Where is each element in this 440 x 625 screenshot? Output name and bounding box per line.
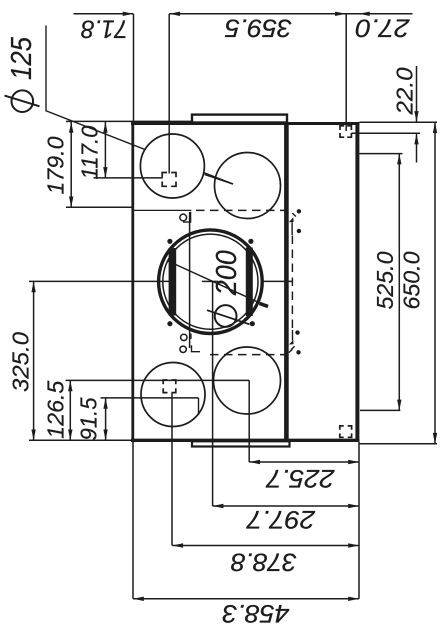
panel corner latch bottom-right dash	[291, 346, 295, 349]
duct left bar	[169, 248, 177, 316]
duct outer circle 200	[159, 230, 263, 334]
phi125 symbol circle	[11, 90, 33, 112]
body right edge	[355, 122, 359, 442]
duct vertical centerline extension to dim 297.7	[212, 281, 214, 506]
hinge bracket top	[183, 212, 191, 222]
extension line 126.5 / 225.7 horizontal	[66, 379, 250, 381]
dim 297.7 line	[213, 505, 359, 507]
svg-text:650.0: 650.0	[399, 251, 425, 309]
phi200 symbol slash	[207, 310, 250, 324]
dashed panel right edge	[291, 236, 293, 331]
body left edge	[131, 122, 134, 442]
svg-text:179.0: 179.0	[43, 136, 69, 194]
bolt dot right bottom1	[295, 330, 299, 334]
svg-text:125: 125	[6, 36, 38, 80]
flange bolt dot top-left	[167, 239, 172, 244]
body top edge	[131, 122, 360, 125]
body bottom edge	[131, 439, 360, 442]
dashed panel bottom edge	[210, 354, 293, 356]
panel corner latch top-right wedge	[289, 217, 294, 222]
extension line 525 top	[360, 153, 403, 155]
svg-text:325.0: 325.0	[8, 332, 34, 392]
dim 91.5 line	[105, 398, 107, 440]
extension line bottom dims right	[358, 442, 360, 599]
panel corner latch bottom-right wedge	[289, 340, 294, 345]
extension line 117 bottom horizontal	[94, 177, 163, 179]
hidden edge line through duct	[189, 212, 191, 348]
panel corner latch bottom-right arc	[289, 349, 293, 352]
svg-text:225.7: 225.7	[265, 464, 335, 492]
dim 458.3 line	[133, 598, 359, 600]
bolt dot right top2	[297, 229, 301, 233]
extension line 525 bottom connector	[360, 409, 400, 411]
phi125 symbol slash	[5, 96, 40, 107]
svg-text:378.8: 378.8	[231, 548, 297, 576]
panel top edge solid part	[133, 209, 191, 211]
dim 22.0 line	[416, 66, 418, 163]
duct inner circle 200	[163, 234, 258, 329]
bottom collar	[192, 441, 290, 446]
extension line 179 bottom horizontal	[66, 206, 133, 208]
extension line 91.5 short vertical	[198, 398, 200, 415]
duct right bar	[246, 248, 253, 317]
bolt dot right bottom2	[296, 350, 300, 354]
svg-text:71.8: 71.8	[81, 15, 128, 43]
svg-text:458.3: 458.3	[222, 599, 289, 625]
duct horizontal centerline	[29, 280, 293, 282]
extension line 458.3 vertical left	[132, 442, 134, 599]
svg-text:359.5: 359.5	[225, 14, 292, 42]
dim 225.7 line	[249, 461, 359, 463]
leader stub into C2	[205, 174, 234, 184]
panel corner latch bottom-right tail	[292, 330, 294, 341]
hinge ring top	[180, 214, 187, 221]
extension line 650 top	[360, 121, 438, 123]
duct circle 125 top-right C2	[215, 153, 281, 219]
marker M2	[340, 126, 351, 137]
svg-text:200: 200	[211, 250, 243, 296]
hinge ring bottom2	[180, 346, 186, 352]
marker M4	[340, 426, 352, 437]
svg-text:27.0: 27.0	[355, 14, 410, 42]
svg-text:22.0: 22.0	[392, 67, 418, 115]
hinge bracket bottom1	[190, 333, 192, 339]
flange bolt dot top-right	[248, 239, 253, 244]
dim 179.0 line	[70, 122, 72, 207]
svg-text:117.0: 117.0	[77, 125, 103, 179]
hinge bracket bottom2	[192, 345, 201, 352]
svg-text:525.0: 525.0	[372, 251, 398, 309]
duct circle 125 bottom-right C4	[214, 347, 281, 414]
extension line 179 top horizontal	[66, 120, 192, 122]
top collar	[192, 115, 287, 123]
extension line 378.8 vertical from marker M3	[171, 393, 173, 546]
hinge ring bottom1	[181, 334, 187, 340]
marker M3	[163, 380, 176, 393]
leader duct 200	[167, 261, 260, 304]
dim line top	[74, 13, 413, 15]
flange bolt dot bottom-right	[250, 321, 255, 326]
bolt dot right top1	[297, 209, 301, 213]
dim 650.0 line	[434, 122, 436, 443]
leader line phi125	[46, 26, 233, 185]
dashed panel top edge	[196, 209, 293, 211]
duct circle 125 top-left C1	[140, 134, 204, 198]
flange bolt dot bottom-left	[167, 321, 172, 326]
divider wall	[284, 122, 289, 442]
dim 525.0 line	[398, 154, 400, 411]
duct circle 125 bottom-left C3	[141, 363, 205, 427]
extension line 359.5 left vertical to marker M1	[168, 14, 170, 174]
dim 325.0 line	[33, 281, 35, 440]
leader duct stub	[260, 303, 269, 306]
extension line 27.0 vertical to marker M2	[345, 14, 347, 131]
panel corner latch top-right tail	[291, 222, 293, 235]
extension line 325 bottom horizontal	[29, 439, 131, 441]
extension line 225.7 vertical	[248, 380, 250, 462]
dim 378.8 line	[172, 545, 359, 547]
phi200 symbol circle	[215, 305, 237, 327]
marker M1	[162, 173, 176, 187]
svg-text:126.5: 126.5	[43, 380, 69, 438]
dim 126.5 line	[69, 380, 71, 440]
panel corner latch top-right dash	[292, 213, 296, 216]
extension line 22 bottom from marker M2	[352, 132, 421, 134]
extension line 91.5 horizontal	[101, 397, 199, 399]
svg-text:297.7: 297.7	[246, 505, 316, 533]
dim 117.0 line	[104, 122, 106, 178]
svg-text:91.5: 91.5	[76, 397, 102, 440]
extension line 650 bottom	[360, 443, 438, 445]
extension line 71.8 right vertical body corner	[133, 14, 135, 122]
